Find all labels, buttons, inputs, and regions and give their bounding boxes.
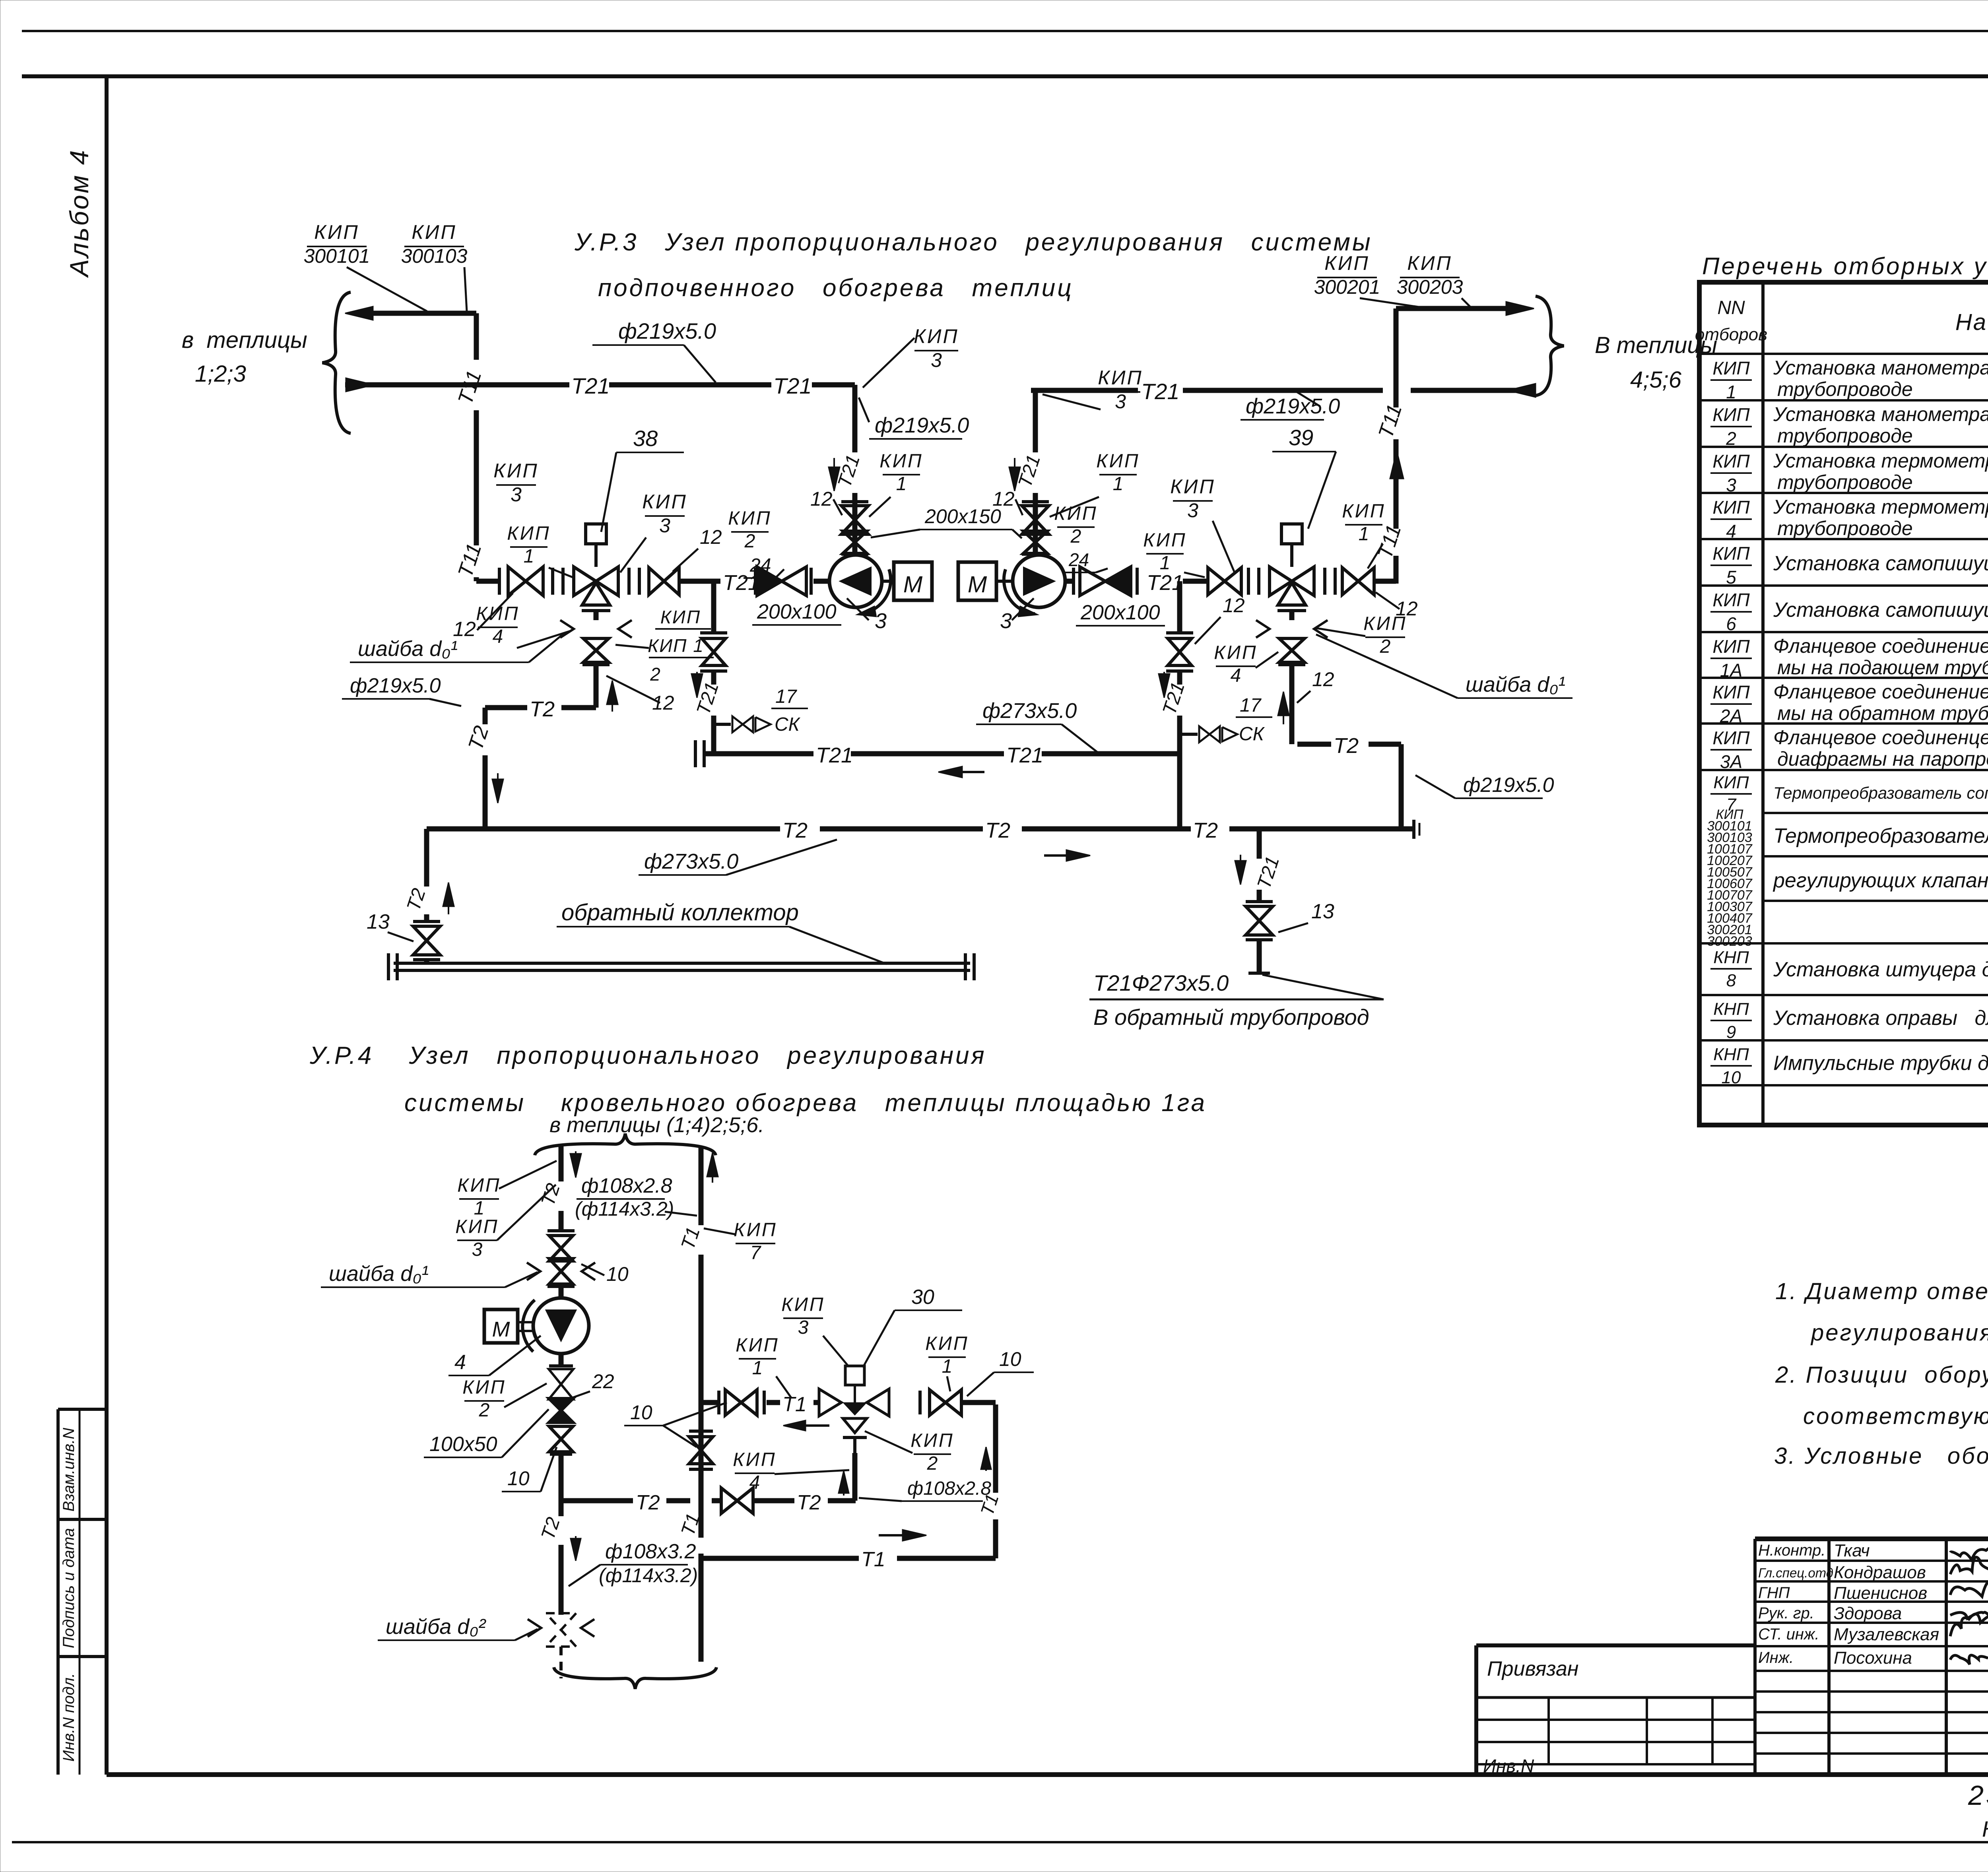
- svg-text:мы на обратном трубопроводе: мы на обратном трубопроводе: [1777, 702, 1988, 724]
- pump 3 right: [1004, 555, 1065, 617]
- svg-text:1: 1: [474, 1198, 485, 1219]
- label phi108-32 UR4: [569, 1540, 698, 1587]
- svg-text:КНП: КНП: [1713, 948, 1749, 967]
- svg-text:КИП: КИП: [1712, 636, 1750, 657]
- label 200x150 mid: [871, 505, 1022, 538]
- label T2 left inline: [530, 697, 555, 721]
- label KIP/1 left leg: [869, 450, 923, 517]
- label T11 right vert2: [1373, 522, 1406, 561]
- label KIP/2 right: [1316, 613, 1407, 657]
- wire UR4 row end: [962, 1400, 996, 1405]
- arrow down right tee: [1159, 672, 1170, 698]
- svg-text:13: 13: [1311, 900, 1334, 923]
- svg-text:КНП: КНП: [1713, 1045, 1749, 1064]
- label T2 collector c: [1193, 819, 1218, 842]
- motor M UR4: [484, 1309, 533, 1343]
- privyazan text: [1487, 1657, 1578, 1680]
- label T1 bottom: [861, 1548, 885, 1571]
- svg-text:в теплицы (1;4)2;5;6.: в теплицы (1;4)2;5;6.: [549, 1113, 764, 1137]
- valve 100x50 UR4: [549, 1399, 573, 1422]
- svg-text:КИП: КИП: [1712, 590, 1750, 610]
- arrow up shaiba right: [1278, 692, 1289, 724]
- label KIP/2-24 right: [1054, 503, 1108, 572]
- table col headers: [1695, 297, 1988, 344]
- svg-text:системы кровельного обогрев: системы кровельного обогрева теплицы пло…: [404, 1089, 1207, 1117]
- label T2 left vert: [464, 723, 493, 753]
- label KIP/3 row left: [493, 460, 538, 506]
- svg-text:Термопреобразователь сопротивл: Термопреобразователь сопротивления от кл…: [1773, 784, 1988, 802]
- table row KIP7: [1710, 773, 1988, 815]
- svg-text:Альбом 4: Альбом 4: [64, 149, 94, 278]
- label shaiba d0-1 left: [350, 633, 565, 662]
- leader KIP3 left upper: [863, 338, 914, 388]
- note 2a: [1775, 1362, 1988, 1388]
- svg-text:шайба d₀²: шайба d₀²: [386, 1615, 486, 1639]
- svg-text:КИП: КИП: [879, 450, 923, 471]
- label 10 upper UR4: [581, 1263, 629, 1285]
- svg-text:1: 1: [524, 546, 534, 567]
- svg-text:Т2: Т2: [530, 697, 555, 721]
- signature table grid: [1755, 1539, 1988, 1775]
- label shaiba1 UR4: [321, 1262, 538, 1287]
- label KIP/7 UR4: [704, 1219, 777, 1263]
- svg-text:200х100: 200х100: [757, 600, 837, 623]
- label KIP/2 UR4: [462, 1377, 547, 1421]
- three-way valve 39: [1270, 524, 1314, 611]
- svg-text:КИП: КИП: [1096, 450, 1140, 471]
- valve 10 upper UR4: [527, 1231, 595, 1286]
- inv number text: [1483, 1756, 1534, 1776]
- svg-text:КИП: КИП: [462, 1377, 506, 1398]
- flange pair b: [629, 568, 639, 595]
- privyazan table grid: [1476, 1645, 1755, 1775]
- svg-text:КИП: КИП: [728, 508, 771, 529]
- wire row to tee: [679, 579, 720, 584]
- valve KIP2 UR4: [549, 1354, 573, 1399]
- label 4 UR4: [448, 1336, 541, 1375]
- label 12 row2: [673, 526, 722, 572]
- flange r2: [1136, 568, 1139, 595]
- svg-text:3: 3: [511, 483, 522, 506]
- svg-text:Т1: Т1: [861, 1548, 885, 1571]
- label phi219 lower right: [1415, 774, 1554, 798]
- svg-text:6: 6: [1726, 613, 1736, 634]
- svg-text:КИП: КИП: [734, 1219, 777, 1240]
- svg-text:38: 38: [633, 426, 658, 451]
- label shaiba d0-1 right: [1316, 634, 1573, 698]
- UR4 top brace: [535, 1134, 716, 1155]
- pump 4 UR4: [522, 1298, 589, 1354]
- svg-text:3: 3: [472, 1239, 483, 1260]
- svg-text:Установка самопишущего термоме: Установка самопишущего термометра: [1773, 599, 1988, 622]
- svg-text:Инв.N: Инв.N: [1483, 1756, 1534, 1776]
- svg-text:трубопроводе: трубопроводе: [1777, 517, 1913, 539]
- svg-text:1: 1: [896, 473, 907, 495]
- svg-text:39: 39: [1289, 425, 1313, 450]
- label T2 right inline: [1334, 734, 1359, 758]
- label 10 mid UR4: [502, 1447, 557, 1492]
- svg-text:ф108х3.2: ф108х3.2: [605, 1540, 696, 1563]
- arrow down right drop: [1235, 855, 1246, 885]
- copied by: [1982, 1816, 1988, 1841]
- svg-text:3: 3: [798, 1317, 809, 1338]
- svg-text:У.Р.3 Узел пропорционального: У.Р.3 Узел пропорционального регулирован…: [574, 229, 1373, 256]
- table header text: [1702, 253, 1988, 279]
- flange pair: [553, 568, 563, 595]
- svg-text:10: 10: [630, 1401, 652, 1424]
- svg-text:подпочвенного обогрева теп: подпочвенного обогрева теплиц: [598, 274, 1074, 302]
- svg-text:СТ. инж.: СТ. инж.: [1758, 1626, 1819, 1643]
- label T21 collector a: [816, 743, 853, 767]
- label T2 UR4 top: [537, 1181, 564, 1209]
- label 12 right tee: [1195, 594, 1245, 644]
- text v teplitsy 123: [182, 327, 307, 387]
- UR4 title line1: [309, 1042, 986, 1069]
- leader KIP12: [615, 645, 649, 648]
- svg-text:Пшениснов: Пшениснов: [1834, 1583, 1927, 1603]
- flange u2: [763, 1391, 766, 1414]
- label KIP/1 UR4row: [736, 1335, 791, 1398]
- svg-text:Т21: Т21: [571, 373, 610, 398]
- label 100x50 UR4: [424, 1409, 549, 1457]
- svg-text:Ткач: Ткач: [1834, 1541, 1870, 1560]
- label KIP/2 UR4row: [865, 1430, 954, 1474]
- flow arrow row: [783, 1420, 829, 1431]
- label KIP/3 right rowL: [1170, 475, 1235, 572]
- wire T21 supply from 123: [345, 378, 855, 392]
- svg-text:Т21: Т21: [773, 373, 812, 398]
- note 1b: [1810, 1320, 1988, 1346]
- label 10 pair UR4: [624, 1401, 727, 1447]
- label KIP/4 UR4: [733, 1449, 849, 1493]
- svg-text:3А: 3А: [1720, 751, 1742, 772]
- label shaiba2 UR4: [378, 1615, 538, 1640]
- three-way valve 38: [574, 524, 618, 611]
- wire UR4 T1 vert: [699, 1146, 704, 1662]
- svg-text:ф273х5.0: ф273х5.0: [982, 699, 1077, 723]
- note 3: [1774, 1443, 1988, 1469]
- label phi219 left: [592, 318, 716, 345]
- label T21 right tee: [1159, 680, 1189, 718]
- label phi219 lower left: [342, 674, 461, 706]
- arrow down right leg: [1009, 458, 1020, 491]
- wire to pump1: [813, 579, 829, 584]
- svg-text:КИП: КИП: [412, 221, 456, 243]
- svg-text:(ф114х3.2): (ф114х3.2): [575, 1198, 674, 1220]
- wire T11 right vertical: [1394, 308, 1399, 581]
- valve 200x100 left: [757, 567, 806, 596]
- return collector pipe: [394, 963, 970, 970]
- svg-text:Инв.N подл.: Инв.N подл.: [60, 1673, 78, 1762]
- svg-text:отборов: отборов: [1695, 325, 1767, 344]
- svg-text:ф219х5.0: ф219х5.0: [618, 318, 716, 343]
- arrow up loop: [981, 1447, 991, 1471]
- wire UR4 row b: [767, 1400, 818, 1405]
- label 13 right: [1278, 900, 1334, 932]
- svg-text:шайба d₀¹: шайба d₀¹: [1466, 673, 1565, 696]
- svg-text:300203: 300203: [1707, 934, 1752, 949]
- svg-text:Наименование: Наименование: [1955, 309, 1988, 335]
- svg-text:10: 10: [507, 1467, 530, 1490]
- SK branch right: [1180, 726, 1237, 742]
- svg-text:КИП: КИП: [642, 491, 687, 513]
- label T1 UR4 top: [677, 1224, 704, 1252]
- valve 12 right row: [1208, 568, 1241, 595]
- svg-text:3: 3: [1115, 390, 1126, 413]
- UR4 bottom brace: [554, 1667, 716, 1689]
- svg-text:4: 4: [493, 626, 503, 647]
- left drop with valve 13: [413, 829, 440, 963]
- label 200x100 right: [1076, 601, 1165, 626]
- label KIP/1b UR4row: [925, 1333, 969, 1391]
- svg-text:3: 3: [659, 514, 670, 537]
- label phi108-28 UR4: [575, 1174, 697, 1220]
- arrow down left tee: [691, 672, 703, 698]
- label KIP 1-2 left: [648, 607, 714, 685]
- svg-text:12: 12: [700, 526, 722, 548]
- svg-text:1А: 1А: [1720, 660, 1742, 681]
- wire motor2 to pump2: [996, 580, 1013, 583]
- svg-text:ф108х2.8: ф108х2.8: [907, 1478, 991, 1499]
- leader KIP300203: [1462, 298, 1472, 308]
- svg-text:17: 17: [1240, 695, 1262, 716]
- label phi219 right: [1241, 394, 1340, 420]
- svg-text:ГНП: ГНП: [1758, 1584, 1790, 1602]
- label 10 row2 UR4: [967, 1348, 1034, 1396]
- svg-text:Инж.: Инж.: [1758, 1649, 1794, 1666]
- label KIP/1 row left: [507, 523, 550, 567]
- brace greenhouses 4-5-6: [1536, 296, 1564, 396]
- UR4 title line2: [404, 1089, 1207, 1117]
- label T21 right row: [1147, 571, 1184, 595]
- label 17 SK right: [1236, 695, 1272, 745]
- label KIP/1 right rowL: [1143, 530, 1205, 577]
- arrow up branch: [839, 1471, 849, 1496]
- label T2 horiz a: [636, 1491, 660, 1514]
- wire UR4 T2 to tee: [559, 1454, 564, 1501]
- svg-text:17: 17: [775, 686, 798, 707]
- valve 10 on T2: [721, 1488, 753, 1513]
- svg-text:обратный коллектор: обратный коллектор: [561, 900, 799, 925]
- signature table text: [1758, 1541, 1988, 1668]
- svg-text:2: 2: [744, 531, 755, 552]
- flange u3: [918, 1391, 922, 1414]
- label KIP/1 UR4: [457, 1161, 557, 1219]
- label T1 mid UR4: [677, 1511, 704, 1538]
- UR3 title line1: [574, 229, 1373, 256]
- svg-text:трубопроводе: трубопроводе: [1777, 425, 1913, 447]
- svg-text:в теплицы: в теплицы: [182, 327, 307, 353]
- return collector flange R: [965, 953, 974, 980]
- svg-text:3: 3: [1187, 499, 1198, 522]
- svg-text:22: 22: [592, 1370, 614, 1393]
- label T21 right leg: [1014, 452, 1044, 490]
- label T2 left drop: [403, 886, 430, 914]
- KIP table grid: [1699, 282, 1988, 1125]
- shaiba d0-2 dashed UR4: [528, 1613, 594, 1678]
- flange pair r2: [1325, 568, 1335, 595]
- svg-text:Установка термометра на горизо: Установка термометра на горизонтальном: [1773, 450, 1988, 472]
- wire T21 return to 456: [1396, 302, 1534, 315]
- label KIP/1 right leg: [1050, 450, 1140, 517]
- label KIP/3+1 right rowR: [1342, 500, 1385, 568]
- right pump leg with valves 12 / 200x150: [1022, 390, 1049, 555]
- label 17 SK left: [771, 686, 808, 735]
- label 12 left leg: [810, 488, 842, 515]
- svg-text:3: 3: [931, 349, 942, 371]
- svg-text:Н.контр.: Н.контр.: [1758, 1542, 1825, 1559]
- label phi273 lower: [639, 840, 837, 875]
- svg-text:Привязан: Привязан: [1487, 1657, 1578, 1680]
- flange lb2: [810, 568, 813, 595]
- arrow up left drop: [443, 883, 454, 914]
- svg-text:300101: 300101: [304, 245, 370, 267]
- svg-text:соответствуют спецификации.: соответствуют спецификации.: [1803, 1403, 1988, 1429]
- svg-text:Т21: Т21: [1006, 743, 1043, 767]
- label KIP/4 left: [476, 603, 572, 648]
- svg-text:М: М: [968, 572, 987, 597]
- wire row right segment c: [1183, 579, 1207, 584]
- flange: [498, 568, 501, 595]
- label T1 loop: [977, 1491, 1003, 1518]
- label 38: [601, 426, 684, 532]
- table row KIP8: [1710, 948, 1988, 990]
- svg-text:2: 2: [927, 1453, 938, 1474]
- stamp text podpis: [60, 1528, 78, 1649]
- svg-text:Т2: Т2: [636, 1491, 660, 1514]
- svg-text:КИП: КИП: [1214, 642, 1257, 663]
- label T1 row: [782, 1393, 807, 1416]
- label KIP/3 right leg: [1043, 367, 1143, 413]
- label T21 left leg: [834, 452, 864, 490]
- svg-text:10: 10: [1722, 1068, 1741, 1087]
- label KIP/3 UR4: [455, 1185, 556, 1260]
- flange lb: [754, 568, 757, 595]
- svg-text:регулирующих клапанов (поставк: регулирующих клапанов (поставка ГДР): [1773, 869, 1988, 892]
- svg-text:2: 2: [650, 664, 660, 685]
- label 12 under: [606, 676, 674, 714]
- svg-text:10: 10: [999, 1348, 1021, 1370]
- svg-text:Т21: Т21: [816, 743, 853, 767]
- wire row left segment: [476, 579, 499, 584]
- arrow down UR4: [570, 1151, 581, 1178]
- wire T11 return to 123: [345, 307, 476, 320]
- svg-text:ф219х5.0: ф219х5.0: [1246, 394, 1340, 418]
- svg-text:Т1: Т1: [782, 1393, 807, 1416]
- UR3 title line2: [598, 274, 1074, 302]
- leader phi219 right: [1296, 392, 1320, 406]
- svg-text:7: 7: [750, 1242, 762, 1263]
- wire UR4 right loop: [993, 1404, 998, 1558]
- svg-text:300201: 300201: [1314, 276, 1380, 298]
- svg-text:2: 2: [1070, 526, 1081, 547]
- svg-text:200х150: 200х150: [924, 505, 1001, 528]
- svg-text:Импульсные трубки для отбора: Импульсные трубки для отбора давления: [1773, 1052, 1988, 1075]
- flange u1: [717, 1391, 720, 1414]
- svg-text:Установка штуцера для маноме: Установка штуцера для манометров: [1773, 958, 1988, 981]
- leader phi219 left: [684, 345, 716, 382]
- wire to pump UR4: [559, 1286, 564, 1298]
- label KIP/3 UR4row: [781, 1294, 849, 1367]
- svg-text:Здорова: Здорова: [1834, 1604, 1902, 1623]
- wire row right segment a: [1065, 579, 1074, 584]
- leader KIP31: [549, 568, 573, 577]
- arrow up shaiba left: [607, 681, 618, 712]
- svg-text:шайба d₀¹: шайба d₀¹: [329, 1262, 429, 1286]
- svg-text:1: 1: [1113, 473, 1124, 495]
- svg-text:У.Р.4 Узел пропорциональн: У.Р.4 Узел пропорционального регулирован…: [309, 1042, 986, 1069]
- label 12 right under: [1297, 668, 1334, 703]
- svg-text:NN: NN: [1717, 297, 1745, 318]
- svg-text:1: 1: [942, 1356, 953, 1377]
- terminator T2 right: [1414, 820, 1419, 839]
- svg-text:4;5;6: 4;5;6: [1630, 367, 1682, 393]
- wire UR4 T2 down: [559, 1501, 564, 1615]
- label KIP 300201: [1314, 252, 1380, 298]
- svg-text:3: 3: [1726, 475, 1736, 495]
- wire UR4 T2 top: [559, 1146, 564, 1231]
- flow arrow T1 bottom: [879, 1530, 926, 1541]
- label T21 collector b: [1006, 743, 1043, 767]
- svg-text:Установка термометра на вертик: Установка термометра на вертикальном: [1773, 496, 1988, 518]
- svg-text:1. Диаметр отверстий шайб в уз: 1. Диаметр отверстий шайб в узлах пропор…: [1775, 1278, 1988, 1304]
- label T11 on vertical: [454, 368, 486, 407]
- leader KIP300101: [347, 267, 427, 311]
- wire T2 collector: [427, 826, 1414, 832]
- label 30 UR4: [863, 1286, 962, 1368]
- svg-text:Подпись и дата: Подпись и дата: [60, 1528, 78, 1649]
- label T21 right drop: [1253, 854, 1283, 892]
- label T21 left row: [723, 571, 760, 595]
- wire row right end: [1374, 556, 1396, 584]
- flange pair r: [1248, 568, 1259, 595]
- label T11 right crossing: [1374, 402, 1407, 441]
- wire UR4 branch up: [852, 1453, 858, 1501]
- doc number: [1968, 1780, 1988, 1811]
- label phi108-28b UR4: [859, 1478, 991, 1501]
- svg-text:Посохина: Посохина: [1834, 1648, 1912, 1668]
- label T2 down UR4: [537, 1515, 564, 1542]
- svg-text:КИП: КИП: [507, 523, 550, 544]
- valve 10 mid UR4: [549, 1426, 573, 1454]
- svg-text:ф219х5.0: ф219х5.0: [875, 413, 969, 437]
- svg-text:Кондрашов: Кондрашов: [1834, 1563, 1926, 1582]
- label KIP/3 left upper: [914, 325, 959, 371]
- svg-text:24: 24: [1068, 549, 1089, 570]
- arrow down left leg: [829, 458, 840, 491]
- svg-text:В обратный трубопровод: В обратный трубопровод: [1093, 1005, 1369, 1030]
- label 12 leftmost: [453, 593, 513, 641]
- svg-text:КИП: КИП: [314, 221, 359, 243]
- svg-text:КИП: КИП: [1342, 500, 1385, 522]
- svg-text:Установка оправы для терм: Установка оправы для термометров: [1773, 1007, 1988, 1030]
- arrow down UR4 b: [571, 1536, 581, 1561]
- album label: [64, 149, 94, 278]
- wire T2 left segment: [485, 705, 596, 710]
- terminator T21 collector: [695, 740, 704, 767]
- label T21 inline b: [773, 373, 812, 398]
- wire T21 right main: [1031, 384, 1536, 397]
- svg-text:ф219х5.0: ф219х5.0: [1463, 774, 1554, 797]
- three-way bottom UR4: [843, 1418, 867, 1455]
- label T21 right inline: [1141, 379, 1180, 404]
- svg-text:диафрагмы на паропроводе: диафрагмы на паропроводе: [1777, 748, 1988, 770]
- arrow T2 down to collector: [492, 773, 503, 803]
- SK branch left: [714, 716, 771, 732]
- svg-text:Т2: Т2: [1193, 819, 1218, 842]
- sheet bottom outer line: [12, 1841, 1988, 1843]
- label 12 right row2: [1376, 592, 1418, 620]
